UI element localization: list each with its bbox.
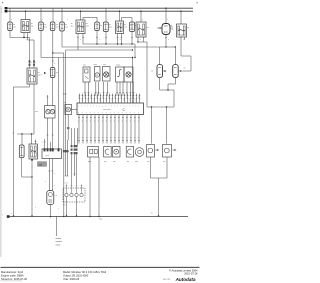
svg-text:xxx: xxx [163, 161, 166, 163]
wire F1 down [10, 31, 30, 38]
svg-text:xxxx: xxxx [88, 161, 91, 163]
relay K5 [171, 24, 189, 37]
connector stack P1 [71, 145, 78, 154]
svg-text:3: 3 [1, 8, 2, 10]
svg-text:Manufacturer: Ford: Manufacturer: Ford [1, 270, 24, 274]
fuse F8 [41, 68, 58, 78]
wire junction y134 [13, 133, 35, 135]
lamp L1 [103, 67, 111, 82]
wire tap K3 [119, 11, 120, 22]
svg-text:xxx: xxx [44, 27, 47, 29]
svg-text:xx: xx [120, 97, 122, 99]
pin ticks below row1 [23, 37, 184, 41]
svg-text:xxx: xxx [56, 27, 59, 29]
fuse F2 [39, 22, 47, 31]
wire tap K4 [140, 11, 141, 23]
connector block D1 [63, 183, 85, 207]
svg-text:xxx: xxx [31, 26, 34, 28]
wire riser x58 to CN [58, 58, 60, 150]
sensor C6 [147, 145, 159, 164]
svg-text:xx: xx [108, 97, 110, 99]
wire K3 loop to F7 [122, 18, 133, 23]
svg-text:xxx: xxx [83, 65, 86, 67]
wire K7 down to earth [31, 159, 33, 217]
ECU module [77, 103, 144, 115]
fuse F3 [50, 22, 58, 31]
earth terminal marker [2, 213, 12, 218]
svg-text:xx: xx [138, 97, 140, 99]
svg-text:xx x: xx x [46, 155, 49, 157]
wire VS down [50, 205, 51, 218]
svg-text:xx: xx [84, 97, 86, 99]
svg-text:xx: xx [147, 27, 149, 29]
sensor VS [35, 191, 59, 211]
wire earth bus [7, 216, 188, 218]
wire C6 down [150, 157, 152, 178]
svg-text:xxx: xxx [124, 27, 127, 29]
wire long horizontal y44 [83, 43, 135, 45]
wire C1 down to earth [89, 157, 90, 217]
svg-text:xx: xx [93, 100, 95, 102]
wire L2 feeds [47, 78, 53, 106]
sensor C2 [104, 147, 112, 164]
wires P1 feeds [72, 128, 78, 145]
svg-text:xx: xx [117, 100, 119, 102]
node 15 terminal marker [1, 10, 7, 13]
svg-text:xxxx: xxxx [135, 161, 138, 163]
wire K2 pin a down [66, 34, 134, 51]
logo Autodata [175, 277, 196, 282]
wire riser x65 down [65, 50, 67, 176]
svg-text:xxxxxx: xxxxxx [56, 238, 62, 240]
wire CN feed stub a [44, 139, 46, 149]
wires ECU bottom pin bundle [78, 115, 140, 144]
wire F5 down [96, 31, 97, 45]
valve E1 [151, 65, 166, 78]
wire F9 down [22, 158, 33, 178]
switch S1 [83, 67, 90, 82]
wire P1a down to D1 [71, 155, 73, 185]
wire valve Y1 down [165, 35, 166, 48]
lamp L1 label [103, 64, 106, 66]
svg-text:1: 1 [1, 11, 2, 13]
svg-text:xxx: xxx [64, 102, 67, 104]
footer sorted [1, 277, 28, 281]
svg-text:xxxxx: xxxxx [116, 65, 120, 67]
wire E2 down [167, 78, 175, 91]
wire C7 down [166, 157, 168, 178]
svg-text:xx: xx [105, 100, 107, 102]
relay K4 [130, 22, 148, 37]
node 30 terminal marker [1, 7, 7, 10]
svg-text:xx: xx [87, 100, 89, 102]
wire tap K5 [180, 11, 181, 25]
svg-text:xxx: xxx [104, 161, 107, 163]
svg-text:LD 171: LD 171 [163, 279, 171, 281]
fuse F6 [103, 22, 111, 32]
wire left long run [13, 87, 30, 217]
wires L2 down [47, 118, 54, 149]
wire junction bar y107 [147, 106, 174, 108]
wire K6 pin b down [33, 84, 35, 134]
unit L2 [45, 106, 56, 119]
svg-text:xx: xx [81, 100, 83, 102]
scan edge shading left [0, 6, 2, 257]
wire K6 pins [30, 61, 35, 69]
wire K1 pin a down [23, 33, 24, 39]
svg-text:xxx: xxx [109, 27, 112, 29]
wire K4 pin a down [137, 37, 138, 43]
ECU bottom pin numbers [78, 112, 139, 139]
unit C1 [88, 147, 99, 164]
wire K6 pin a down [29, 84, 31, 87]
svg-text:2015-07-26: 2015-07-26 [184, 272, 198, 276]
sensor C5 inductive [135, 148, 144, 163]
fuse F7 [130, 22, 137, 32]
wire F2 jog [41, 31, 58, 58]
lamp U2 glow plug indicator [64, 102, 72, 115]
svg-text:xxx: xxx [71, 26, 74, 28]
wire K5 pin b down [184, 37, 186, 40]
note text block [56, 238, 63, 247]
svg-text:xx: xx [135, 100, 137, 102]
svg-text:Engine code: D6BA: Engine code: D6BA [1, 273, 24, 277]
svg-text:xxxxxxx: xxxxxxx [56, 241, 63, 243]
wire K3 pins down [117, 34, 122, 45]
wire F7 down [131, 32, 132, 45]
svg-text:xx: xx [56, 72, 58, 74]
svg-text:x x x x: x x x x [64, 183, 69, 185]
svg-text:xxx: xxx [86, 26, 89, 28]
footer doc number [163, 279, 171, 281]
motor M1 label [94, 64, 98, 66]
footer manufacturer [1, 270, 24, 274]
svg-text:xx: xx [90, 97, 92, 99]
wire tap F4 [61, 8, 63, 22]
wire U2 to ECU [72, 109, 78, 111]
svg-text:xx: xx [187, 27, 189, 29]
svg-text:Autodata: Autodata [175, 277, 196, 282]
footer engine code [1, 273, 24, 277]
svg-text:Output: 85 (115) 4000: Output: 85 (115) 4000 [63, 273, 89, 277]
wire P1b stub [74, 155, 76, 177]
wire F4 down [61, 31, 63, 47]
wire to K6 left pin [29, 38, 31, 61]
page corner mark top-left [2, 2, 3, 3]
fuse F5 [95, 22, 102, 31]
wire K4 pin b down [138, 37, 147, 42]
connector CN row [42, 142, 62, 159]
wire F6 down [105, 32, 106, 45]
wire to note [56, 216, 58, 236]
wire bus 15 [8, 10, 194, 12]
fuse F4 [60, 22, 68, 31]
svg-text:xx: xx [99, 100, 101, 102]
svg-text:xx: xx [13, 133, 15, 135]
svg-text:xx: xx [126, 97, 128, 99]
svg-text:xx: xx [184, 68, 186, 70]
wire x132 drop to ECU [132, 57, 133, 103]
svg-text:xx: xx [56, 195, 58, 197]
sensor C4 [126, 147, 134, 164]
wires ECU top pin bundle [79, 94, 141, 104]
wire K1 pin b jog [28, 33, 35, 61]
svg-text:xxxx: xxxx [99, 219, 102, 221]
svg-text:Model: Mondeo '00 2.0 Di 115cv: Model: Mondeo '00 2.0 Di 115cv TDdi [63, 270, 106, 274]
wire K5 pin a down [181, 37, 191, 71]
svg-text:xxxxx: xxxxx [56, 245, 61, 247]
svg-text:xx: xx [100, 25, 102, 27]
svg-text:xx: xx [111, 100, 113, 102]
relay K3 [116, 21, 127, 34]
wire riser x63 to earth [63, 53, 65, 217]
wire long horizontal y57 [58, 57, 133, 59]
wire D1 pin a down [66, 197, 67, 217]
wire tap pump valve [165, 8, 166, 24]
svg-text:xx: xx [132, 97, 134, 99]
wire loop out a [151, 106, 152, 143]
valve Y1 fuel shut-off [157, 24, 173, 35]
ECU top pin numbers [78, 97, 140, 108]
sensor C7 [163, 145, 177, 164]
earth bus label [99, 219, 102, 221]
wire bus 30 [8, 7, 194, 9]
svg-text:xxx: xxx [127, 161, 130, 163]
svg-text:xxx: xxx [103, 64, 106, 66]
wire tap K2 [80, 11, 81, 21]
svg-text:xx: xx [78, 97, 80, 99]
motor M1 [95, 67, 101, 82]
svg-text:xxx: xxx [113, 161, 116, 163]
svg-text:xxx: xxx [65, 27, 68, 29]
switch S1 label [83, 65, 86, 67]
wires CN down to VS [45, 159, 55, 191]
svg-text:Year: 2000-03: Year: 2000-03 [63, 277, 80, 281]
svg-text:xxx: xxx [130, 28, 133, 30]
wire tap F3 [52, 8, 54, 22]
relay K2 [71, 20, 89, 34]
relay K1 [21, 20, 34, 33]
wire tap F2 [40, 8, 42, 22]
wire K2 pin b down [82, 34, 84, 45]
unit T1a heater [116, 67, 125, 82]
wire long horizontal y47 [62, 46, 160, 48]
svg-text:xx: xx [151, 213, 153, 215]
footer output [63, 273, 89, 277]
wire K2 loop to F5 [83, 17, 97, 22]
footer model [63, 270, 106, 274]
svg-text:xx: xx [114, 97, 116, 99]
pin numbers below buses [11, 19, 168, 21]
fuse F1 [8, 22, 16, 31]
wire C2 down to earth [98, 157, 99, 217]
svg-text:xxx xxxx: xxx xxxx [103, 109, 111, 111]
footer rule [1, 266, 200, 268]
wire K7 feed [31, 134, 33, 144]
svg-text:xx: xx [102, 97, 104, 99]
wire F3 jog [52, 31, 64, 54]
wire C6-C7 join [151, 178, 168, 217]
resistor L2 label [35, 111, 38, 113]
wire loop out b [166, 106, 167, 143]
footer year [63, 277, 80, 281]
wire x147 drop B1 left [146, 42, 148, 107]
wire y47 to E1 [159, 47, 161, 65]
wire y47 to E2 [160, 46, 176, 64]
wire tap K1 [25, 11, 26, 20]
wire tap F6 [105, 8, 107, 22]
gray label plate [38, 162, 47, 167]
svg-text:xxxx: xxxx [94, 64, 98, 66]
relay K7 [29, 140, 38, 160]
valve E2 [173, 65, 186, 78]
unit T1b lamp [124, 67, 133, 82]
unit T1 label [116, 65, 120, 67]
wires row2 pins to ECU [84, 82, 134, 96]
wire D1 pin b down [76, 197, 77, 217]
svg-text:xxx: xxx [35, 111, 38, 113]
wire F8 feed [52, 53, 55, 68]
svg-text:Sorted on: 2015-07-26: Sorted on: 2015-07-26 [1, 277, 28, 281]
svg-text:xx: xx [151, 71, 153, 73]
wire U2 down [67, 115, 70, 177]
footer copyright [169, 268, 198, 272]
svg-text:xxx: xxx [147, 161, 150, 163]
page corner mark top-right [197, 2, 198, 3]
wire x135 drop [134, 44, 135, 58]
wire E1 down [160, 78, 174, 108]
sensor C3 [113, 147, 121, 164]
svg-text:xxx: xxx [63, 205, 66, 207]
svg-text:xxx: xxx [13, 27, 16, 29]
svg-text:xx: xx [129, 100, 131, 102]
wire F9 feed [21, 134, 23, 145]
wire P1c down to D1 [76, 155, 78, 185]
connector ticks K6 [29, 60, 37, 65]
footer date [184, 272, 198, 276]
svg-text:xxx: xxx [171, 29, 174, 31]
relay K6 [27, 68, 41, 84]
svg-text:xx: xx [123, 100, 125, 102]
svg-text:xx: xx [96, 97, 98, 99]
wire tap F1 [9, 8, 11, 22]
fuse F9 [19, 145, 24, 158]
wire CN feed stub b [50, 142, 52, 149]
